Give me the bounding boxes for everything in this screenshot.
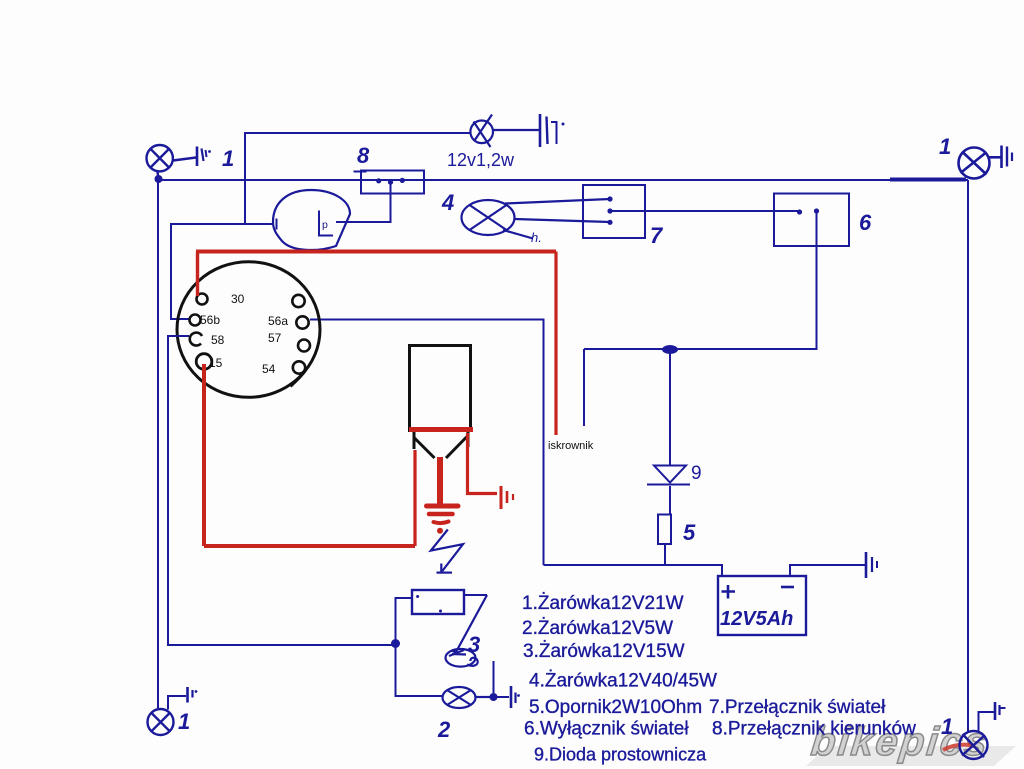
wire: main top horizontal bus (net 30) bbox=[158, 179, 968, 181]
lamp 1 (bottom-left turn indicator) bbox=[148, 709, 174, 735]
ignition coil T1 (black can) bbox=[410, 346, 471, 459]
svg-text:56b: 56b bbox=[200, 313, 220, 327]
wire: flasher right to lever bbox=[464, 594, 487, 596]
battery B1 12V5Ah bbox=[718, 576, 806, 635]
svg-text:5: 5 bbox=[683, 520, 696, 545]
pin 54 terminal with tail bbox=[293, 361, 305, 373]
wire: short drop from net to magneto area bbox=[583, 349, 585, 426]
wire (red): pin 15 down to coil primary bbox=[202, 364, 206, 546]
pin +: battery positive bbox=[722, 585, 736, 599]
resistor 5 bbox=[658, 515, 671, 545]
ground: bottom-right lamp ground branch bbox=[979, 702, 1006, 731]
pin dots inside switch 7 bbox=[607, 196, 612, 201]
svg-text:8: 8 bbox=[357, 143, 370, 168]
wire: resistor 5 to battery bus bbox=[664, 544, 666, 565]
pin tick on relay 8 left corner bbox=[354, 171, 367, 173]
wire: switch 6 pin down then left (net to magneto) bbox=[584, 213, 817, 349]
svg-text:30: 30 bbox=[231, 292, 245, 306]
svg-text:7.Przełącznik świateł: 7.Przełącznik świateł bbox=[709, 697, 886, 718]
ground: top-right lamp ground bbox=[1002, 146, 1013, 169]
svg-text:4: 4 bbox=[441, 190, 454, 215]
pin p: horn contact mark bbox=[319, 211, 333, 236]
wire (red): coil bottom bar bbox=[409, 427, 473, 432]
lamp 1 (bottom-right turn indicator) bbox=[960, 731, 988, 759]
wire (red): pin 30 up and right to magneto bbox=[196, 252, 199, 297]
wire: left vertical from lamp L1 junction down to lamp L1-bottom bbox=[157, 180, 159, 709]
wire: thicker segment near right lamp bbox=[890, 178, 966, 182]
svg-text:12V5Ah: 12V5Ah bbox=[720, 608, 793, 630]
switch 3 rotary body bbox=[446, 649, 478, 667]
wire: junction B down to diode 9 bbox=[669, 352, 671, 465]
wire: junction up to flasher rect bbox=[396, 598, 413, 643]
watermark red swoosh bbox=[943, 745, 975, 750]
svg-text:7: 7 bbox=[650, 223, 664, 248]
node C: bottom junction dot bbox=[391, 639, 400, 648]
wire: battery + bus horizontal bbox=[544, 565, 723, 576]
svg-text:12v1,2w: 12v1,2w bbox=[447, 150, 515, 170]
svg-text:9: 9 bbox=[691, 463, 702, 484]
svg-text:1: 1 bbox=[939, 134, 951, 159]
svg-text:3.Żarówka12V15W: 3.Żarówka12V15W bbox=[523, 641, 685, 662]
flasher box (item near switch 3) bbox=[412, 590, 464, 614]
switch 7 (light dip switch box) bbox=[583, 185, 645, 238]
svg-text:57: 57 bbox=[268, 331, 282, 345]
wire (red): coil right terminal to ground bbox=[468, 433, 498, 494]
switch 3 lever bbox=[456, 595, 487, 652]
pin top-right terminal bbox=[292, 295, 304, 307]
wire (red): coil HT electrode down bbox=[437, 457, 443, 505]
svg-text:58: 58 bbox=[211, 333, 225, 347]
node A: junction dot at top-left lamp bbox=[155, 175, 163, 183]
svg-text:1: 1 bbox=[222, 146, 234, 171]
pin 30 terminal (top-left) bbox=[197, 294, 208, 305]
relay 8 (turn signal switch box) bbox=[361, 171, 424, 194]
lamp 4 (headlamp) bbox=[462, 199, 611, 239]
svg-text:2: 2 bbox=[437, 717, 451, 742]
pin -: battery negative bbox=[781, 586, 794, 589]
ground: top-centre lamp ground bbox=[540, 114, 557, 147]
wire: right vertical bus down to bottom-right lamp bbox=[967, 180, 969, 731]
svg-text:h.: h. bbox=[531, 230, 542, 245]
ground: bottom-left lamp ground branch bbox=[168, 687, 193, 710]
svg-text:8.Przełącznik kierunków: 8.Przełącznik kierunków bbox=[712, 719, 916, 740]
svg-text:iskrownik: iskrownik bbox=[548, 440, 594, 452]
wire: pin 56a to battery + (long riser) bbox=[310, 320, 544, 566]
pin 56a terminal bbox=[296, 316, 308, 328]
svg-text:4.Żarówka12V40/45W: 4.Żarówka12V40/45W bbox=[529, 671, 717, 692]
pin 15 terminal bbox=[196, 354, 212, 370]
ground: lamp 2 ground bbox=[511, 686, 516, 708]
node B: junction blob on that wire bbox=[662, 345, 678, 354]
horn H1 (blob with + and p) bbox=[273, 190, 350, 250]
svg-text:p: p bbox=[322, 219, 328, 231]
ground: battery negative ground bbox=[866, 552, 877, 578]
lamp 1 (top-left turn indicator) bbox=[147, 145, 197, 179]
pin dots inside switch 6 bbox=[797, 209, 802, 214]
wire: relay 8 middle pin down and left to horn bbox=[336, 184, 391, 222]
watermark bikepics band bbox=[806, 746, 1016, 766]
svg-text:6.Wyłącznik świateł: 6.Wyłącznik świateł bbox=[524, 719, 689, 740]
wire: dot to ground and up to switch 3 bbox=[494, 696, 510, 698]
svg-text:6: 6 bbox=[859, 210, 872, 235]
lamp 12v1,2w (top-centre pilot lamp) bbox=[470, 115, 539, 148]
wire: junction down to lamp 2 bbox=[396, 643, 443, 696]
svg-text:5.Opornik2W10Ohm: 5.Opornik2W10Ohm bbox=[529, 697, 702, 718]
wire: branch from bus up-left area to top lamp (x=245) bbox=[245, 133, 470, 224]
pin dots inside relay 8 bbox=[376, 178, 381, 183]
diode 9 (rectifier) bbox=[647, 466, 690, 515]
wire: horn + terminal to left vertical riser bbox=[171, 224, 273, 319]
svg-text:15: 15 bbox=[209, 356, 223, 370]
wire: battery - to ground bbox=[790, 565, 866, 576]
svg-text:1: 1 bbox=[178, 709, 190, 734]
svg-text:2.Żarówka12V5W: 2.Żarówka12V5W bbox=[522, 618, 673, 639]
pin 56b terminal bbox=[190, 315, 201, 326]
wire: pin 58 left and down to bottom junction bbox=[168, 336, 392, 645]
ground (red): spark gap stack bbox=[427, 504, 459, 509]
svg-text:54: 54 bbox=[262, 362, 276, 376]
ground (red): coil right ground bbox=[501, 486, 513, 509]
switch 6 (light main switch box) bbox=[774, 194, 849, 247]
svg-text:56a: 56a bbox=[268, 314, 288, 328]
ground: top-left lamp chassis ground bbox=[197, 147, 207, 167]
pin +: horn positive terminal bbox=[276, 219, 278, 230]
ignition switch S1 (big circle) bbox=[177, 262, 320, 398]
svg-text:9.Dioda prostownicza: 9.Dioda prostownicza bbox=[534, 745, 707, 765]
pin 57 terminal bbox=[298, 340, 310, 352]
svg-text:1.Żarówka12V21W: 1.Żarówka12V21W bbox=[522, 593, 684, 614]
spark arrow (lightning bolt) bbox=[431, 530, 463, 572]
node D: lamp 2 output dot bbox=[490, 693, 498, 701]
wire: switch 7 to switch 6 bbox=[612, 210, 798, 212]
lamp 2 (tail lamp) bbox=[443, 687, 491, 708]
svg-text:3: 3 bbox=[468, 632, 480, 657]
lamp 1 (top-right turn indicator) bbox=[959, 148, 1002, 179]
pin 58 terminal (open C) bbox=[190, 333, 202, 346]
svg-text:1: 1 bbox=[941, 714, 953, 739]
